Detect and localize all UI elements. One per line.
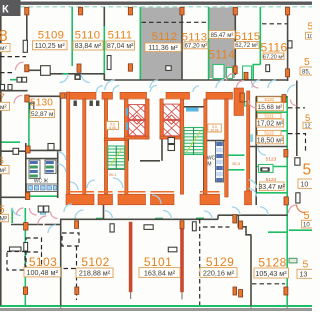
core foot 6: [245, 191, 252, 205]
green shelf box room 5123: [259, 165, 274, 173]
wall 5110/5111 upper dark: [103, 7, 105, 26]
svg-text:110,25 м²: 110,25 м²: [35, 43, 66, 50]
area box 5124: [258, 182, 285, 191]
WC-F left wall: [25, 143, 27, 197]
dashed demarcation in 5129: [199, 219, 201, 305]
green partition 5109/5110: [71, 7, 73, 66]
shaft 5107 bottom: [13, 148, 19, 154]
dashed line in 5112-5113: [142, 21, 209, 23]
vestibule wall: [0, 90, 28, 92]
svg-text:5,08: 5,08: [109, 126, 115, 130]
column boxes vestibule b: [8, 85, 12, 91]
wall 5103/5102: [60, 219, 62, 305]
elevator car B1 red hatch: [163, 104, 180, 119]
stairwell A: [108, 146, 125, 169]
elevator bank A frame: [125, 99, 150, 139]
balcony cutout B in 5114: [227, 68, 233, 79]
corridor wall below 5110: [50, 73, 104, 75]
svg-text:163,84 м²: 163,84 м²: [144, 268, 176, 277]
core wall v2: [83, 99, 86, 197]
wall ticks to site line: [61, 305, 288, 309]
svg-text:12: 12: [305, 124, 311, 130]
dashed line right rooms a: [288, 107, 305, 109]
svg-text:К: К: [2, 4, 9, 16]
svg-text:м²: м²: [0, 45, 7, 52]
wall 5116 right / corridor: [287, 15, 289, 82]
WC-M left wall: [203, 140, 205, 194]
svg-text:м²: м²: [0, 167, 7, 174]
top-left stair/header dark box: [0, 0, 21, 16]
green partition 5113/5114: [208, 7, 210, 80]
svg-text:67,20 м²: 67,20 м²: [185, 44, 208, 50]
column 5122 corner: [284, 150, 288, 158]
core foot 2: [98, 194, 113, 205]
column small rooms top-right: [282, 95, 286, 103]
red wall in 5101/5129: [180, 222, 184, 292]
green wall left of 5130: [28, 102, 30, 150]
svg-text:5: 5: [303, 259, 309, 271]
wall 5110/5111 lower green part: [103, 26, 105, 80]
column top wall 2: [79, 7, 83, 15]
svg-text:5: 5: [308, 22, 313, 33]
svg-text:5101: 5101: [144, 255, 172, 269]
area box right mid cut: [298, 179, 313, 189]
column 5116 bottom left: [244, 72, 248, 79]
column 5129 bottom a: [233, 287, 237, 295]
area box 5117 cut: [306, 32, 315, 40]
green wall small WC right low: [268, 231, 287, 233]
column top wall 6: [286, 7, 290, 15]
shelf rect 5104: [10, 247, 22, 251]
stairs A bottom wall: [104, 168, 128, 170]
green wall bottom of WC-F: [26, 195, 58, 197]
column 5116 bottom right: [286, 69, 290, 77]
green door sill corridor 1: [96, 218, 104, 220]
svg-text:111,36 м²: 111,36 м²: [148, 45, 178, 52]
svg-text:105,43 м²: 105,43 м²: [255, 269, 287, 278]
lower corridor wall left: [11, 224, 43, 226]
column 5128 wall top: [233, 215, 237, 223]
shaft box corridor top: [41, 66, 51, 76]
label box 5122: [258, 130, 282, 135]
green wall top of 5106: [0, 141, 20, 143]
stairsB room door wall: [184, 106, 204, 108]
door arcs pink: [14, 62, 297, 224]
teal dashed line under top wall: [21, 6, 313, 8]
column 5102 top: [75, 221, 79, 229]
WC-M stall column: [216, 141, 224, 182]
area box 5121: [257, 119, 284, 128]
column corridor top-left: [25, 65, 29, 72]
left outer wall: [0, 16, 2, 306]
core right block: [234, 88, 244, 116]
svg-text:5112: 5112: [152, 31, 178, 43]
core wall v6 WC-M right: [225, 99, 228, 197]
WC-F top wall: [26, 158, 58, 160]
label box 5120: [258, 97, 282, 102]
door leaf 5116: [266, 65, 270, 72]
green door sill corridor 2: [155, 218, 163, 220]
bottom long green boundary line: [0, 305, 312, 307]
area box 5127 cut: [297, 269, 313, 278]
area box 5109: [33, 41, 68, 50]
5128 entry wall a: [238, 215, 251, 235]
door leaf corridor right top: [288, 41, 292, 48]
wall 5108 right: [26, 15, 28, 41]
svg-text:8: 8: [0, 28, 8, 45]
dashed line 5129 top: [203, 226, 230, 228]
area box 5118 cut: [300, 67, 314, 76]
shaft 5130 bottom: [48, 144, 54, 151]
green vestibule wall: [10, 79, 27, 81]
svg-text:М: М: [207, 162, 211, 168]
red wall in 5102/5101: [129, 222, 133, 292]
svg-text:ВС-4: ВС-4: [234, 109, 242, 113]
green wall right edge room: [289, 229, 312, 231]
red wall tail b: [181, 292, 183, 299]
dashed closet 5102 horizontal: [56, 268, 77, 270]
svg-text:33,47 м²: 33,47 м²: [258, 184, 285, 191]
svg-text:5111: 5111: [108, 30, 133, 42]
svg-text:10: 10: [301, 182, 309, 189]
stairs A entry bar: [104, 138, 128, 141]
tall door leaf 5111: [107, 56, 111, 70]
long green wall right side: [286, 96, 288, 305]
svg-text:ВС-5: ВС-5: [233, 162, 241, 166]
svg-text:5: 5: [304, 57, 310, 68]
svg-text:18,50 м²: 18,50 м²: [257, 137, 284, 144]
cyan door block corridor: [40, 209, 45, 214]
svg-text:15,68 м²: 15,68 м²: [258, 104, 284, 111]
svg-text:17,02 м²: 17,02 м²: [257, 121, 284, 128]
green wall left of 5103: [24, 208, 26, 306]
corridor wall jog: [217, 215, 219, 219]
svg-text:7: 7: [0, 92, 5, 104]
small rooms left wall: [255, 96, 257, 205]
dashed line 5108 a: [0, 56, 26, 58]
column top wall 1: [25, 7, 29, 15]
svg-text:13: 13: [300, 272, 308, 279]
shaft box 5113 bottom: [166, 66, 171, 71]
outer top wall: [21, 2, 313, 5]
dashed line in 5116: [262, 23, 287, 25]
column 5102 bottom: [75, 287, 79, 294]
cyan tick small rooms: [250, 134, 253, 142]
core top bar seg3: [120, 92, 147, 99]
elevator A red diamond: [132, 115, 141, 124]
small rooms bottom wall 5122: [250, 146, 287, 148]
svg-text:218,88 м²: 218,88 м²: [79, 269, 111, 278]
svg-text:5102: 5102: [81, 255, 109, 269]
wall 5130 top: [29, 95, 62, 97]
vent 5101: [168, 247, 177, 252]
corridor divider stub: [103, 205, 105, 219]
dashed closet 5102 vertical: [76, 246, 78, 300]
balcony cutout C: [243, 66, 252, 80]
door arc orange right: [297, 205, 305, 213]
svg-text:10: 10: [307, 34, 312, 40]
svg-text:5116: 5116: [260, 41, 287, 55]
svg-text:100,48 м²: 100,48 м²: [27, 268, 59, 277]
vent 5128: [289, 258, 297, 263]
core top bar seg2: [102, 92, 113, 99]
lower corridor wall mid: [60, 218, 218, 220]
column top wall 3: [128, 7, 132, 15]
svg-text:6: 6: [0, 156, 4, 167]
column 5103 top: [24, 223, 28, 230]
double door corridor left a: [17, 77, 22, 82]
green tick right core: [245, 102, 250, 107]
lower corridor wall left b: [45, 224, 61, 226]
svg-text:10: 10: [303, 223, 310, 229]
core foot 4: [151, 194, 175, 205]
column boxes vestibule a: [1, 85, 5, 91]
elevator bank B frame: [160, 99, 184, 139]
column at 5110 green wall: [77, 64, 81, 72]
corridor wall step: [103, 74, 105, 80]
area box 5102: [76, 268, 113, 278]
red wall tail a: [130, 292, 132, 299]
green wall top of 5124: [257, 166, 287, 168]
svg-text:5129: 5129: [206, 255, 234, 269]
green partition 5115/5116: [259, 7, 261, 65]
area box 5111: [106, 41, 135, 50]
stairs B entry blue door: [186, 108, 199, 112]
column vestibule: [25, 95, 29, 102]
area box 5120: [257, 103, 284, 111]
area box 5107: [0, 102, 10, 111]
dashed line right rooms b: [288, 134, 306, 151]
area box 5101: [139, 268, 180, 278]
column 5129 bottom b: [239, 290, 243, 298]
core wall v1: [67, 92, 70, 197]
lift hall mini label left: [107, 122, 119, 130]
green wall 5120/5121: [256, 111, 287, 113]
core wall v3: [104, 99, 107, 194]
door leaf right rooms a: [295, 158, 300, 165]
core corridor dark piece: [140, 160, 160, 162]
wall 5112/5113: [181, 15, 183, 80]
door leaf 5101: [192, 222, 196, 231]
wall 5107 bottom: [0, 150, 28, 152]
svg-text:67,20 м²: 67,20 м²: [263, 54, 284, 60]
core wall v7 far right: [247, 91, 250, 198]
green notch 5116 balcony: [253, 65, 260, 80]
WC-F right wall: [57, 151, 59, 198]
column 5128 bottom: [284, 287, 288, 295]
column 5124 bottom: [284, 197, 288, 205]
small rooms top wall: [256, 96, 287, 98]
column right core top: [240, 93, 244, 102]
lobby walls below banks: [127, 139, 129, 161]
door sill box: [74, 74, 80, 80]
svg-text:ЛК-1: ЛК-1: [109, 173, 116, 177]
wall 5129/5128: [250, 235, 252, 306]
lift hall mini label right: [208, 124, 222, 132]
label box 5121: [258, 113, 282, 118]
vent 5102: [144, 225, 153, 230]
door leaf right rooms b: [296, 193, 300, 203]
core top bar seg1: [66, 92, 96, 99]
dashed closet box 5103: [26, 238, 42, 269]
area box 5108: [0, 44, 10, 53]
area box 5122: [257, 136, 284, 145]
wall 5130 bottom: [29, 149, 62, 151]
door leaf 5130: [30, 103, 34, 113]
shaft door ticks: [74, 101, 77, 107]
column corridor core left: [60, 93, 65, 98]
svg-text:5114: 5114: [208, 48, 235, 62]
double door bottom corridor b: [44, 206, 49, 212]
elevator door marks blue A2: [126, 123, 128, 131]
svg-text:М²: М²: [0, 216, 8, 223]
svg-text:5123: 5123: [266, 157, 277, 163]
area box 5130: [30, 110, 55, 119]
area box 5115: [234, 42, 259, 50]
vent 5124: [260, 167, 269, 171]
core top bar seg5: [206, 92, 233, 99]
room 5114 gray fill: [209, 8, 235, 79]
dashed closet box 5102: [62, 233, 79, 246]
elevator B red diamond: [167, 115, 176, 124]
svg-text:20,96: 20,96: [211, 128, 219, 132]
area box 5106: [0, 166, 9, 175]
elevator door marks blue A: [126, 108, 128, 116]
column room 5111 bottom: [128, 64, 132, 71]
wall right rooms upper: [296, 81, 298, 157]
wall 5114/5115: [234, 15, 236, 76]
svg-text:м²: м²: [0, 104, 7, 111]
svg-text:WC Ж: WC Ж: [34, 179, 49, 185]
green wall 5121/5122: [256, 130, 287, 132]
double door corridor left b: [22, 77, 27, 82]
stairwell B: [184, 128, 203, 155]
core top bar seg4: [166, 92, 190, 99]
column 5103 bottom: [23, 287, 27, 294]
svg-text:62,72 м²: 62,72 м²: [235, 43, 258, 49]
WC-F stall bank 2: [45, 160, 56, 174]
double door bottom corridor a: [38, 206, 43, 212]
dashed closet box 5104: [7, 252, 25, 271]
svg-text:5128: 5128: [258, 256, 286, 270]
wall 5130 right: [60, 95, 62, 151]
door leaf green wall 5103: [24, 243, 28, 252]
column WC-F top: [26, 146, 30, 153]
WC-F washbasin row: [27, 184, 58, 192]
area box 5105: [0, 214, 9, 222]
core wall v5 right of stairs B: [204, 99, 207, 197]
dashed line 5108 b: [0, 72, 13, 74]
svg-text:5120: 5120: [265, 97, 275, 102]
area box 5112: [145, 43, 181, 52]
svg-text:85,: 85,: [302, 70, 311, 76]
svg-text:5: 5: [303, 162, 312, 179]
lower corridor wall right: [218, 214, 288, 216]
green partition 5111/5112: [139, 7, 141, 80]
svg-text:5122: 5122: [265, 131, 275, 136]
duct boxes below bank B: [168, 138, 175, 144]
column 5101 top (red wall cap): [180, 221, 184, 229]
svg-text:5109: 5109: [38, 30, 65, 42]
area box 5116: [263, 53, 284, 60]
green core shelf line 2: [229, 169, 245, 171]
area box 5129: [200, 268, 237, 278]
wall 5106/5105: [0, 196, 26, 198]
WC-F stall bank 1: [29, 160, 40, 179]
column wall 5114/5115 bottom: [233, 66, 237, 74]
column top wall 4: [180, 7, 184, 15]
corridor wall below 5111-5116: [104, 79, 287, 81]
area box 5103: [24, 267, 61, 277]
core foot 3: [118, 194, 146, 205]
dashed line 5128 bottom: [252, 283, 285, 285]
column WC-F bottom: [25, 193, 29, 200]
green door sill 5110: [63, 73, 69, 75]
corridor wall below 5109: [27, 69, 41, 71]
svg-text:83,84 м²: 83,84 м²: [75, 43, 102, 50]
svg-text:52,87 м: 52,87 м: [31, 111, 54, 118]
balcony cutout A in 5114: [213, 65, 224, 79]
green door sill corridor 3: [196, 217, 204, 219]
stairs B left wall: [180, 99, 183, 194]
svg-text:5130: 5130: [30, 98, 53, 109]
area box 5125 cut: [302, 220, 313, 228]
dashed closet divider 5103: [26, 251, 42, 253]
area box 5119 cut: [303, 122, 314, 129]
WC-M top wall: [204, 140, 228, 142]
area box 5110: [73, 41, 103, 50]
green corridor stub left: [11, 208, 13, 223]
svg-text:85,47 м²: 85,47 м²: [211, 33, 234, 39]
svg-text:5121: 5121: [265, 114, 275, 119]
area box 5113: [184, 42, 208, 50]
area box 5128: [254, 268, 289, 278]
elevator car A1 red hatch: [129, 105, 145, 120]
bottom site gray bar: [0, 308, 312, 311]
core lintel line: [66, 191, 220, 193]
area box 85,47: [209, 31, 235, 39]
elevator car B2 red hatch: [163, 120, 180, 135]
svg-text:220,16 м²: 220,16 м²: [203, 268, 235, 277]
core foot 5: [200, 194, 220, 205]
door leaf 5102: [110, 224, 114, 232]
green wall bottom of 5124: [257, 192, 287, 194]
door leaf wall 5108: [23, 40, 27, 52]
room 5112 gray fill: [141, 8, 182, 80]
vent 5124 inner: [262, 169, 267, 171]
elevator car A2 red hatch: [129, 121, 145, 136]
svg-text:87,04 м²: 87,04 м²: [107, 43, 134, 50]
column 5129 entry: [239, 221, 243, 229]
door arcs blue: [13, 74, 296, 233]
core wall v4 lift hall right: [125, 139, 128, 194]
green core shelf line 1: [229, 154, 245, 156]
svg-text:5110: 5110: [75, 30, 101, 42]
column top wall 5: [233, 7, 237, 15]
core foot 1: [66, 194, 94, 205]
